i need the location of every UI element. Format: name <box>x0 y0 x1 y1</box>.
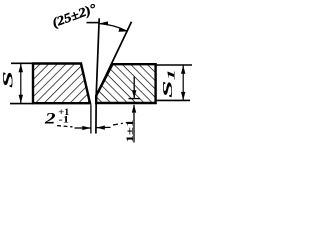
right plate hatching <box>96 64 155 103</box>
root face tick <box>129 98 141 100</box>
S1 dimension arrow down <box>181 92 185 101</box>
root gap arrow right-pointing <box>82 126 91 130</box>
root gap dim line dashed continuation <box>113 123 127 126</box>
root face arrow up <box>132 105 136 113</box>
root face arrow down <box>132 90 136 98</box>
svg-text:-1: -1 <box>59 115 70 125</box>
angle text underline leader <box>87 22 100 24</box>
angle arc <box>100 24 128 32</box>
S1 dimension line <box>182 65 184 101</box>
groove centerline (vertical) <box>96 18 99 133</box>
root gap arrow left-pointing <box>96 126 105 130</box>
svg-text:2: 2 <box>44 111 56 128</box>
S1 dimension arrow up <box>181 65 185 74</box>
root face upper dimension line <box>133 77 135 99</box>
svg-text:S: S <box>1 71 17 88</box>
S dimension arrow down <box>19 95 23 104</box>
left plate outline <box>33 64 90 104</box>
root face lower dimension line <box>133 105 135 143</box>
right plate outline <box>96 64 155 103</box>
S1 dimension bottom tick <box>156 99 190 101</box>
S dimension line <box>20 64 22 104</box>
svg-text:1±1: 1±1 <box>126 119 136 142</box>
root gap dimension line left part <box>57 126 73 127</box>
S dimension arrow up <box>19 64 23 73</box>
S1 dimension top tick <box>156 64 192 66</box>
S dimension top tick <box>11 62 33 64</box>
bevel extension line <box>96 22 131 96</box>
S dimension bottom tick <box>10 103 33 105</box>
left plate hatching <box>33 64 90 104</box>
angle arc arrowhead left <box>100 21 109 25</box>
angle arc arrowhead right <box>118 28 127 32</box>
root gap dimension line right part <box>96 126 110 128</box>
root gap left extension line <box>90 105 92 134</box>
